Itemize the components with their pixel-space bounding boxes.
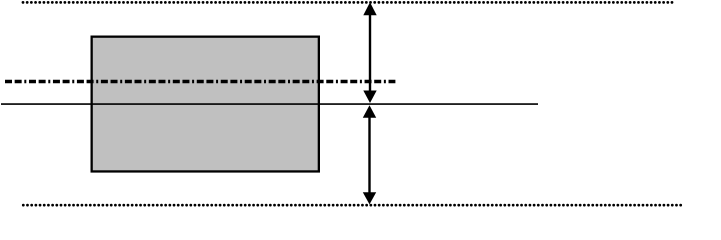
centerline dash-dot <box>5 80 395 83</box>
plate rectangle <box>92 37 319 172</box>
dimension arrow upper (double-headed) <box>363 2 376 103</box>
top boundary dotted line <box>23 1 672 4</box>
bottom boundary dotted line <box>23 204 681 207</box>
reference solid line <box>1 103 538 105</box>
dimension arrow lower (double-headed) <box>363 105 376 204</box>
